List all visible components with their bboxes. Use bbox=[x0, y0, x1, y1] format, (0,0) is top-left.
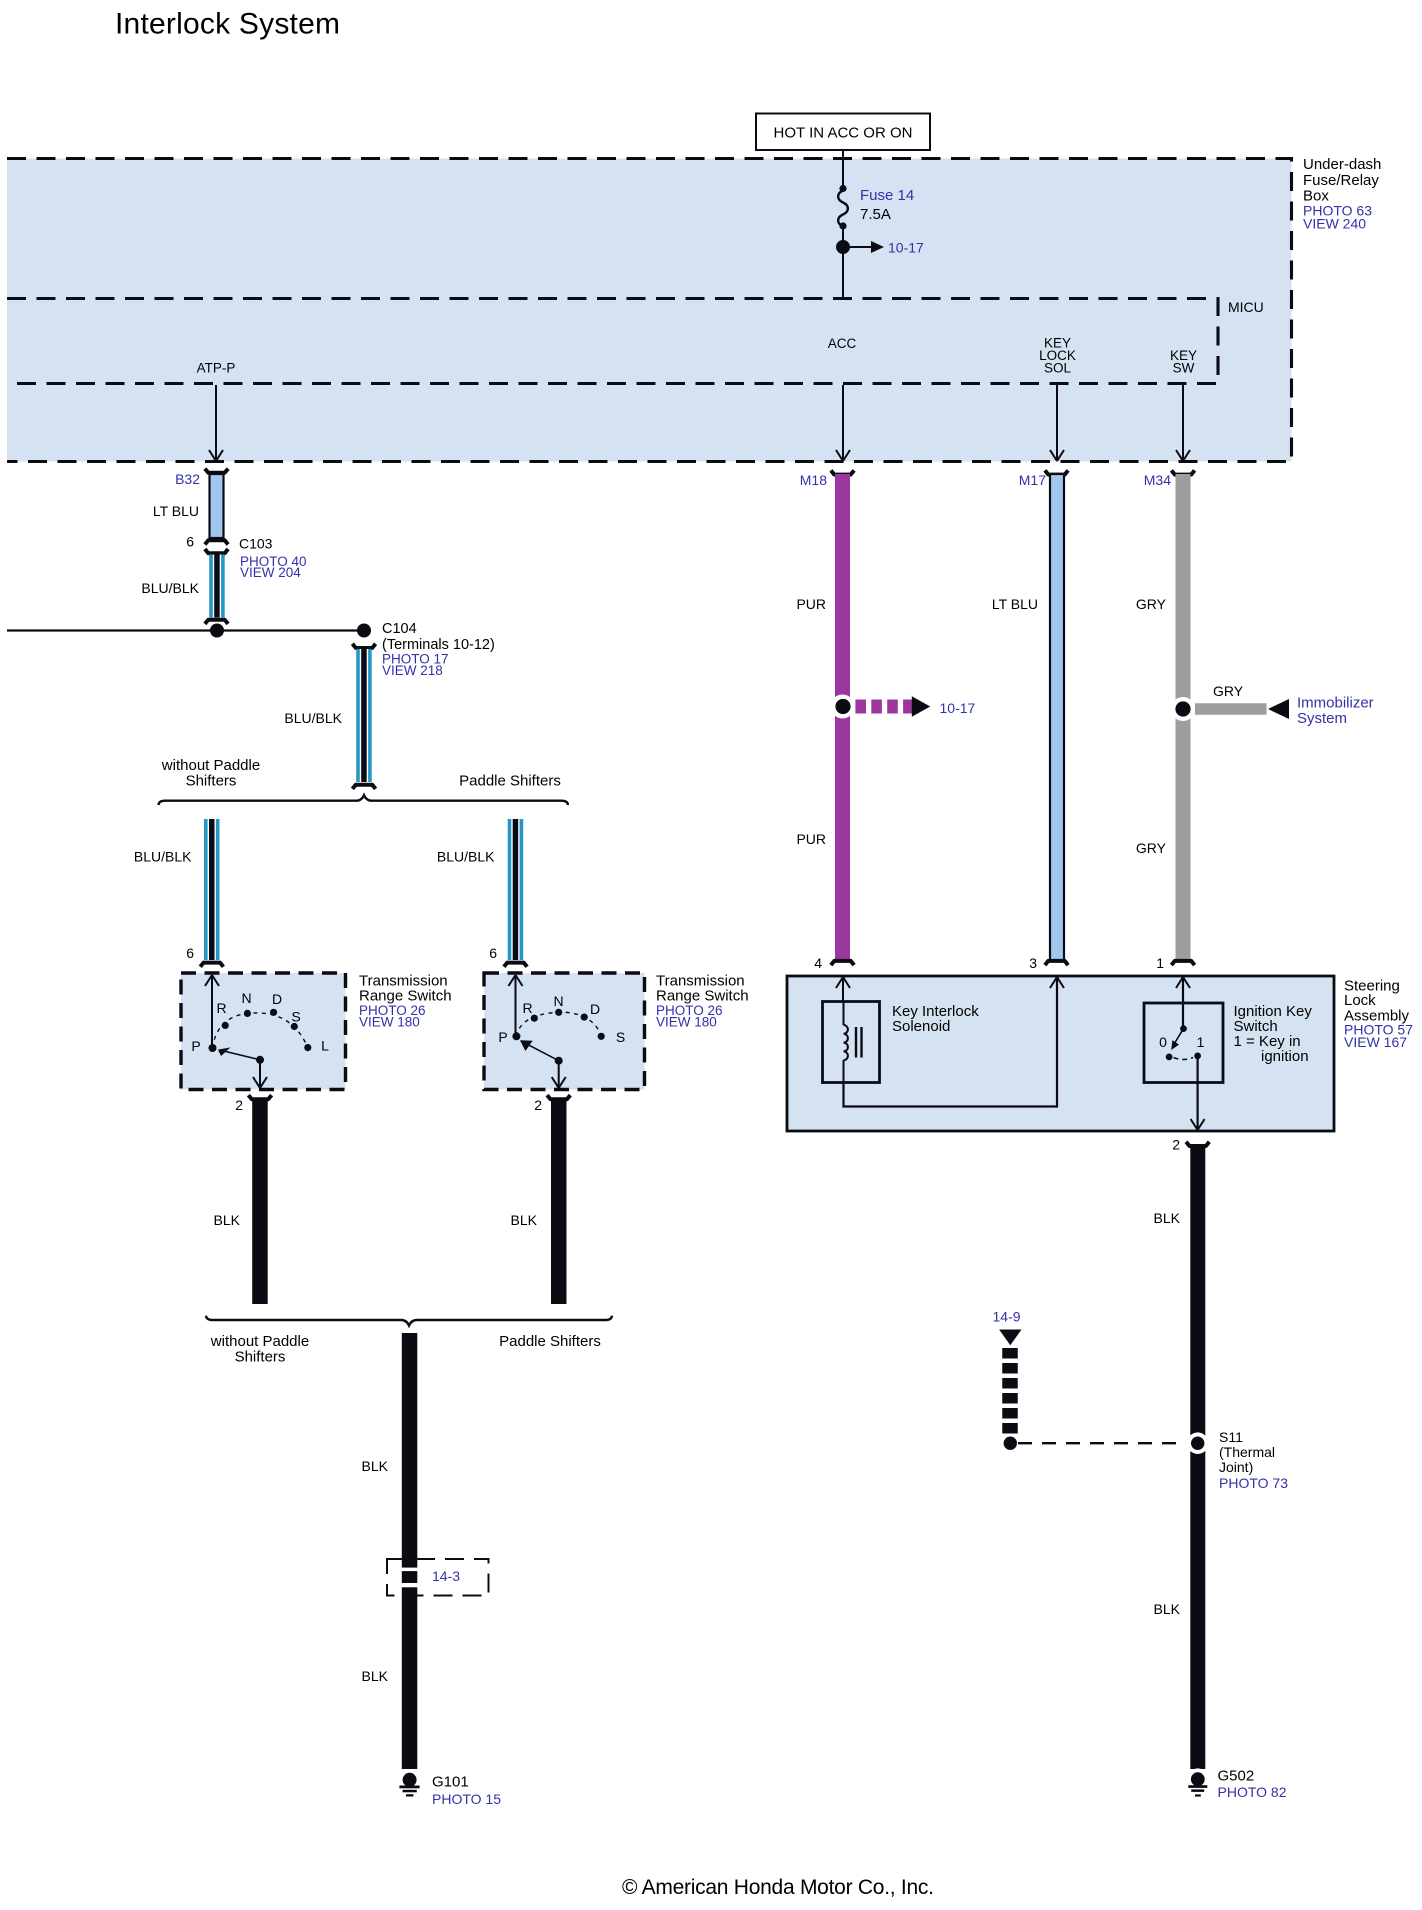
svg-text:G101: G101 bbox=[432, 1774, 469, 1791]
wire BLK middle lower bbox=[402, 1587, 418, 1769]
ignition key switch box bbox=[1144, 1003, 1223, 1083]
solenoid return wire to pin 3 bbox=[844, 977, 1065, 1107]
connector cap left branch bottom bbox=[200, 963, 223, 967]
svg-text:2: 2 bbox=[235, 1097, 243, 1113]
connector 14-3 wire segment bbox=[402, 1571, 418, 1583]
ground G101 bbox=[399, 1769, 421, 1797]
svg-text:S: S bbox=[291, 1009, 300, 1025]
connector cap C104 wire bottom bbox=[352, 785, 375, 789]
fuse 14 symbol bbox=[838, 185, 848, 230]
svg-text:S: S bbox=[616, 1029, 625, 1045]
svg-text:C103: C103 bbox=[239, 536, 273, 552]
svg-text:BLK: BLK bbox=[1154, 1601, 1181, 1617]
svg-text:4: 4 bbox=[814, 955, 822, 971]
branch brace top bbox=[159, 795, 569, 805]
svg-text:LT BLU: LT BLU bbox=[992, 596, 1038, 612]
wire BLU/BLK C104 bbox=[356, 649, 372, 782]
arrowhead 14-9 down bbox=[999, 1330, 1021, 1346]
ground G502 bbox=[1187, 1768, 1209, 1796]
svg-text:S11: S11 bbox=[1219, 1429, 1243, 1445]
svg-text:Shifters: Shifters bbox=[186, 773, 237, 790]
wire BLU/BLK C103 bbox=[209, 555, 225, 618]
svg-text:2: 2 bbox=[1172, 1137, 1180, 1153]
svg-text:R: R bbox=[216, 1000, 226, 1016]
svg-text:0: 0 bbox=[1159, 1034, 1167, 1050]
connector cap M17 bottom bbox=[1045, 961, 1068, 965]
svg-text:PUR: PUR bbox=[796, 831, 826, 847]
TRS right position labels bbox=[498, 993, 625, 1045]
without Paddle Shifters label top bbox=[161, 757, 260, 790]
svg-text:M34: M34 bbox=[1144, 472, 1171, 488]
connector cap M18 bottom bbox=[831, 961, 854, 965]
KEY SW pin arrow bbox=[1176, 385, 1190, 461]
ACC pin arrow bbox=[836, 385, 850, 461]
under-dash fuse/relay box bbox=[7, 159, 1292, 462]
TRS left pin 6 arrow bbox=[205, 975, 219, 1048]
connector cap C103 wire bottom bbox=[205, 620, 228, 624]
key switch contact 1 bbox=[1194, 1053, 1201, 1060]
svg-text:ACC: ACC bbox=[828, 336, 857, 351]
connector cap B32 top bbox=[205, 469, 228, 473]
svg-text:P: P bbox=[498, 1029, 507, 1045]
transmission range switch box right bbox=[484, 973, 645, 1090]
wire GRY M34 bbox=[1176, 474, 1191, 961]
svg-text:C104: C104 bbox=[382, 621, 417, 637]
C104 label bbox=[382, 621, 495, 678]
wire PUR M18 bbox=[835, 474, 850, 961]
svg-text:BLK: BLK bbox=[362, 1458, 389, 1474]
svg-text:without Paddle: without Paddle bbox=[161, 757, 260, 774]
C103 label bbox=[239, 536, 307, 581]
svg-text:© American Honda Motor Co., In: © American Honda Motor Co., Inc. bbox=[622, 1876, 934, 1899]
connector cap right branch bottom bbox=[504, 963, 527, 967]
junction dot below C103 bbox=[210, 624, 224, 638]
svg-text:SW: SW bbox=[1173, 361, 1195, 376]
svg-text:BLU/BLK: BLU/BLK bbox=[134, 849, 192, 865]
connector cap left BLK top bbox=[248, 1095, 271, 1099]
arrowhead immobilizer left bbox=[1268, 699, 1289, 719]
svg-text:GRY: GRY bbox=[1136, 596, 1167, 612]
svg-text:BLK: BLK bbox=[362, 1668, 389, 1684]
KEY LOCK SOL label bbox=[1039, 336, 1076, 376]
key switch blade bbox=[1171, 1029, 1183, 1050]
svg-text:VIEW 180: VIEW 180 bbox=[656, 1015, 717, 1030]
without Paddle Shifters label bottom bbox=[210, 1333, 309, 1366]
svg-text:Range Switch: Range Switch bbox=[359, 988, 452, 1005]
under-dash fuse/relay box label bbox=[1303, 156, 1381, 232]
svg-text:B32: B32 bbox=[175, 471, 200, 487]
svg-text:without Paddle: without Paddle bbox=[210, 1333, 309, 1350]
junction dot C104 bbox=[357, 624, 371, 638]
transmission range switch box left bbox=[181, 973, 346, 1090]
steering lock assembly box bbox=[787, 976, 1334, 1131]
svg-text:MICU: MICU bbox=[1228, 299, 1264, 315]
svg-text:BLK: BLK bbox=[214, 1212, 241, 1228]
key switch output arrow to pin 2 bbox=[1191, 1056, 1205, 1130]
svg-text:P: P bbox=[191, 1038, 200, 1054]
svg-text:7.5A: 7.5A bbox=[860, 206, 891, 223]
G502 label bbox=[1218, 1768, 1287, 1801]
fuse 14 labels bbox=[860, 187, 914, 223]
svg-text:3: 3 bbox=[1029, 955, 1037, 971]
svg-text:Solenoid: Solenoid bbox=[892, 1018, 950, 1035]
dashed joint line to S11 bbox=[1018, 1442, 1186, 1444]
transmission range switch left label bbox=[359, 973, 452, 1030]
junction dot on GRY bbox=[1171, 697, 1195, 721]
svg-text:Fuse/Relay: Fuse/Relay bbox=[1303, 172, 1379, 189]
svg-text:Shifters: Shifters bbox=[235, 1349, 286, 1366]
wire BLK right bbox=[1190, 1148, 1205, 1769]
svg-text:N: N bbox=[241, 990, 251, 1006]
TRS left position dots bbox=[209, 1009, 312, 1052]
svg-text:Fuse 14: Fuse 14 bbox=[860, 187, 914, 204]
svg-text:Lock: Lock bbox=[1344, 992, 1376, 1009]
TRS left position labels bbox=[191, 990, 329, 1054]
svg-text:10-17: 10-17 bbox=[888, 240, 924, 256]
svg-text:GRY: GRY bbox=[1136, 840, 1167, 856]
svg-text:VIEW 204: VIEW 204 bbox=[240, 565, 301, 580]
junction dot on PUR bbox=[831, 695, 855, 719]
svg-text:G502: G502 bbox=[1218, 1768, 1255, 1785]
ATP-P pin arrow bbox=[209, 385, 223, 461]
dot end of 14-9 wire bbox=[1004, 1437, 1017, 1450]
KEY LOCK SOL pin arrow bbox=[1050, 385, 1064, 461]
wire BLK middle upper bbox=[402, 1333, 418, 1568]
TRS right position dots bbox=[512, 1009, 604, 1041]
svg-text:ignition: ignition bbox=[1261, 1048, 1309, 1065]
svg-text:Joint): Joint) bbox=[1219, 1459, 1253, 1475]
wire BLK right bbox=[551, 1101, 567, 1305]
svg-text:6: 6 bbox=[186, 534, 194, 550]
pin 1 wire into key switch bbox=[1176, 977, 1190, 1029]
merge brace bottom bbox=[206, 1316, 612, 1326]
svg-text:M17: M17 bbox=[1019, 472, 1046, 488]
svg-text:D: D bbox=[590, 1001, 600, 1017]
svg-text:6: 6 bbox=[186, 945, 194, 961]
solenoid coil bbox=[844, 1002, 848, 1083]
S11 thermal joint dot bbox=[1187, 1432, 1209, 1454]
svg-text:N: N bbox=[553, 993, 563, 1009]
wire BLU/BLK left branch bbox=[204, 819, 220, 960]
svg-text:LT BLU: LT BLU bbox=[153, 503, 199, 519]
Immobilizer System label bbox=[1297, 695, 1374, 728]
svg-text:VIEW 167: VIEW 167 bbox=[1344, 1034, 1407, 1050]
pin 4 arrow into solenoid bbox=[836, 977, 850, 1002]
svg-text:R: R bbox=[522, 1000, 532, 1016]
junction dot bbox=[836, 240, 850, 254]
ignition key switch label bbox=[1234, 1003, 1313, 1065]
svg-text:PHOTO 73: PHOTO 73 bbox=[1219, 1475, 1288, 1491]
connector cap BLK right top bbox=[1186, 1142, 1209, 1146]
svg-text:PHOTO 15: PHOTO 15 bbox=[432, 1791, 501, 1807]
wire fuse to MICU bbox=[842, 225, 844, 298]
connector 14-3 box bbox=[387, 1559, 489, 1596]
wire BLK left bbox=[252, 1101, 268, 1305]
connector cap B32 bottom bbox=[205, 540, 228, 544]
steering lock assembly label bbox=[1344, 978, 1413, 1051]
svg-text:ATP-P: ATP-P bbox=[197, 361, 236, 376]
svg-text:VIEW 240: VIEW 240 bbox=[1303, 216, 1366, 232]
svg-text:(Thermal: (Thermal bbox=[1219, 1444, 1275, 1460]
connector cap right BLK top bbox=[547, 1095, 570, 1099]
TRS left lever bbox=[218, 1047, 264, 1063]
svg-text:10-17: 10-17 bbox=[940, 700, 976, 716]
svg-text:Range Switch: Range Switch bbox=[656, 988, 749, 1005]
wire horizontal to C104 bbox=[7, 629, 364, 631]
connector cap C103 wire top bbox=[205, 549, 228, 553]
connector cap M34 bottom bbox=[1171, 961, 1194, 965]
branch arrow to 10-17 bbox=[843, 241, 884, 253]
TRS right lever bbox=[520, 1040, 563, 1064]
svg-text:BLU/BLK: BLU/BLK bbox=[141, 580, 199, 596]
svg-text:GRY: GRY bbox=[1213, 683, 1244, 699]
svg-text:VIEW 180: VIEW 180 bbox=[359, 1015, 420, 1030]
arrowhead 10-17 right bbox=[912, 696, 930, 717]
wire from HOT box into fuse box bbox=[842, 150, 844, 188]
HOT IN ACC OR ON box bbox=[756, 114, 930, 151]
TRS right position arc bbox=[516, 1012, 601, 1036]
key switch dashed link bbox=[1174, 1058, 1194, 1060]
solenoid core bars bbox=[856, 1027, 862, 1058]
svg-text:Under-dash: Under-dash bbox=[1303, 156, 1381, 173]
svg-text:SOL: SOL bbox=[1044, 361, 1072, 376]
key interlock solenoid label bbox=[892, 1003, 979, 1035]
svg-text:L: L bbox=[321, 1038, 329, 1054]
MICU box bbox=[7, 299, 1218, 384]
connector cap C104 wire top bbox=[352, 644, 375, 648]
TRS right pin 2 arrow bbox=[552, 1061, 566, 1088]
svg-text:PUR: PUR bbox=[796, 596, 826, 612]
transmission range switch right label bbox=[656, 973, 749, 1030]
connector cap M18 top bbox=[831, 470, 854, 474]
svg-text:System: System bbox=[1297, 710, 1347, 727]
svg-text:Immobilizer: Immobilizer bbox=[1297, 695, 1374, 712]
svg-text:Paddle Shifters: Paddle Shifters bbox=[499, 1333, 601, 1350]
S11 label bbox=[1219, 1429, 1288, 1491]
dashed heavy wire from 14-9 bbox=[1002, 1348, 1018, 1434]
GRY branch wire to immobilizer bbox=[1195, 703, 1267, 715]
key interlock solenoid box bbox=[823, 1002, 880, 1083]
svg-text:BLU/BLK: BLU/BLK bbox=[437, 849, 495, 865]
svg-text:HOT IN ACC OR ON: HOT IN ACC OR ON bbox=[774, 125, 913, 142]
wire LT BLU B32 bbox=[210, 474, 224, 538]
TRS left position arc bbox=[213, 1013, 308, 1048]
svg-text:14-3: 14-3 bbox=[432, 1568, 460, 1584]
svg-text:6: 6 bbox=[489, 945, 497, 961]
svg-text:BLU/BLK: BLU/BLK bbox=[284, 710, 342, 726]
key switch common contact bbox=[1180, 1025, 1187, 1032]
G101 label bbox=[432, 1774, 501, 1808]
svg-text:14-9: 14-9 bbox=[993, 1309, 1021, 1325]
svg-text:2: 2 bbox=[534, 1097, 542, 1113]
wire BLU/BLK right branch bbox=[508, 819, 524, 960]
svg-text:Paddle Shifters: Paddle Shifters bbox=[459, 773, 561, 790]
KEY SW label bbox=[1170, 348, 1197, 376]
TRS right pin 6 arrow bbox=[509, 975, 523, 1036]
connector cap M17 top bbox=[1045, 470, 1068, 474]
wire LT BLU M17 bbox=[1050, 474, 1064, 961]
dashed PUR branch to 10-17 bbox=[855, 700, 912, 714]
svg-text:Interlock System: Interlock System bbox=[115, 8, 340, 41]
key switch contact 0 bbox=[1166, 1054, 1173, 1061]
connector cap M34 top bbox=[1171, 470, 1194, 474]
svg-text:BLK: BLK bbox=[1154, 1210, 1181, 1226]
svg-text:1: 1 bbox=[1197, 1034, 1205, 1050]
TRS left pin 2 arrow bbox=[253, 1060, 267, 1088]
svg-text:VIEW 218: VIEW 218 bbox=[382, 663, 443, 678]
svg-text:M18: M18 bbox=[800, 472, 827, 488]
svg-text:PHOTO 82: PHOTO 82 bbox=[1218, 1784, 1287, 1800]
svg-text:D: D bbox=[272, 991, 282, 1007]
svg-text:1: 1 bbox=[1156, 955, 1164, 971]
svg-text:BLK: BLK bbox=[511, 1212, 538, 1228]
